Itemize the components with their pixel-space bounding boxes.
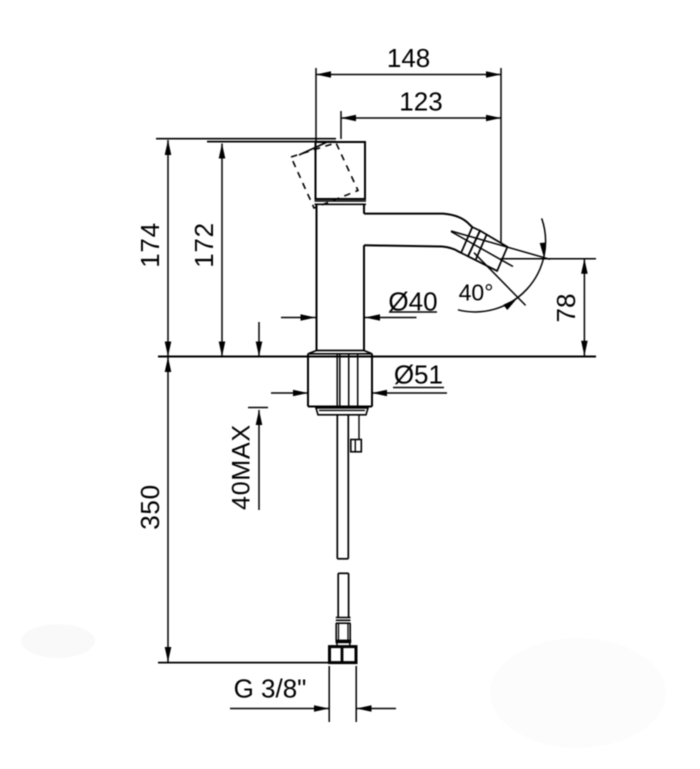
supply hose lower section (338, 573, 348, 617)
spray upper line (451, 231, 550, 259)
bottom reference line (158, 662, 329, 664)
dimension 123 horizontal (341, 87, 501, 139)
svg-text:G 3/8": G 3/8" (234, 674, 307, 704)
dimension 350 vertical (135, 357, 172, 662)
svg-text:40°: 40° (459, 280, 494, 306)
svg-text:Ø51: Ø51 (394, 360, 443, 390)
paper smudge artifact left (21, 624, 95, 658)
faucet body cylinder (317, 204, 365, 350)
dimension 174 vertical (135, 140, 172, 357)
supply hose upper section (337, 415, 348, 559)
spray 40 degree line (474, 253, 526, 306)
dimension 78 vertical (501, 259, 596, 356)
svg-text:78: 78 (551, 294, 581, 323)
clamping washer plate (316, 408, 368, 415)
svg-text:350: 350 (135, 484, 165, 529)
svg-text:123: 123 (399, 87, 442, 117)
mounting nut body diameter 51 (308, 354, 372, 407)
dimension G 3/8 thread (230, 666, 396, 722)
svg-text:172: 172 (189, 222, 219, 267)
svg-text:174: 174 (135, 222, 165, 267)
hose end fitting collar (336, 618, 352, 647)
faucet head cartridge body (316, 142, 366, 199)
dimension 40MAX vertical (227, 322, 268, 510)
spout axis line (451, 232, 513, 267)
faucet lever blade horizontal position (156, 139, 336, 142)
dimension diameter 40 (281, 287, 438, 321)
svg-text:148: 148 (387, 43, 430, 73)
dashed lever tilted position (291, 143, 358, 209)
dimension diameter 51 (271, 360, 447, 397)
base flange cone (308, 351, 372, 354)
threaded shank lines (337, 354, 358, 407)
hex nut G 3/8 connector (330, 647, 357, 663)
dimension 172 vertical (189, 144, 226, 357)
svg-text:40MAX: 40MAX (227, 424, 255, 510)
paper smudge artifact lower right (490, 638, 666, 748)
dimension 148 horizontal (316, 43, 501, 243)
joint ring under head (315, 201, 367, 204)
angle dimension 40 degrees (458, 218, 546, 312)
spout tube (364, 214, 472, 253)
aerator nozzle assembly (461, 227, 507, 271)
hose retaining clip (351, 415, 362, 452)
mounting deck line (158, 356, 596, 358)
